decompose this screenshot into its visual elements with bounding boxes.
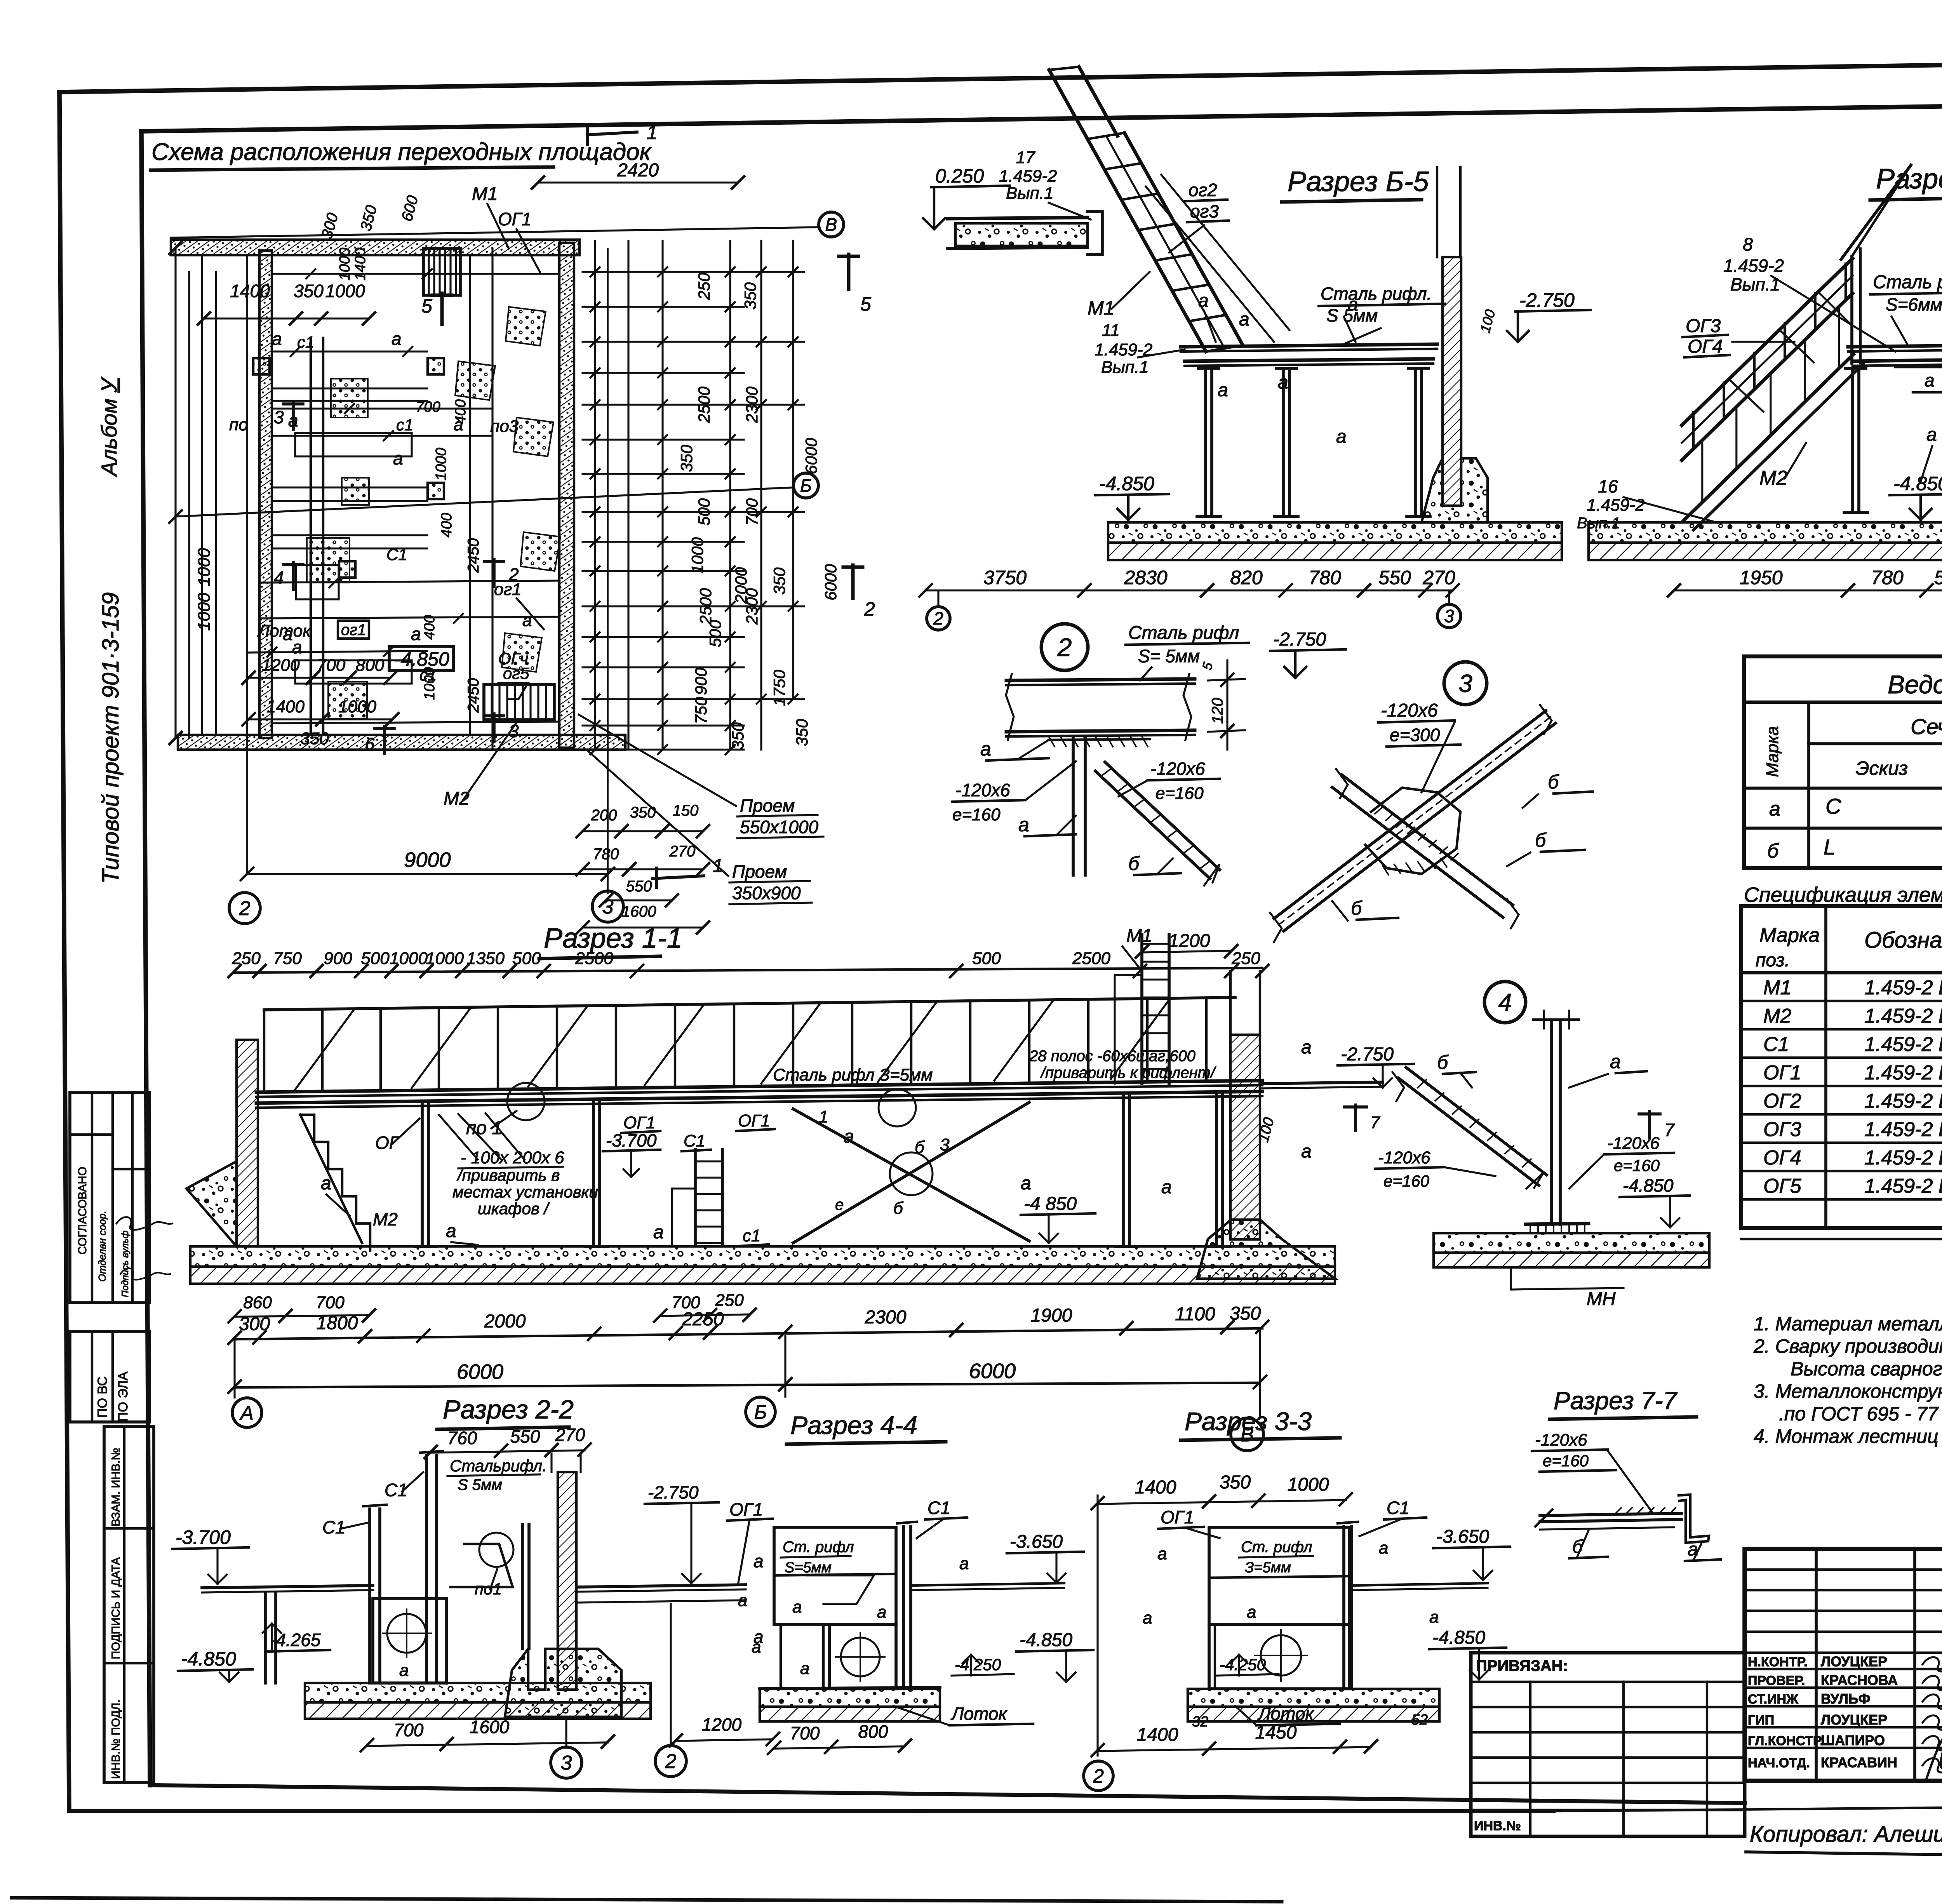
B5 platform floor [1181, 344, 1437, 347]
svg-text:ОГ4: ОГ4 [1688, 336, 1723, 357]
B5 dims [926, 589, 1453, 591]
svg-text:Ст. рифл: Ст. рифл [783, 1539, 854, 1556]
svg-text:а: а [1198, 291, 1209, 311]
svg-text:Спецификация элементов к схеме: Спецификация элементов к схеме расположе… [1744, 883, 1942, 907]
svg-text:1.459-2 Вып.2: 1.459-2 Вып.2 [1864, 1175, 1942, 1197]
B5 ladder rungs [1088, 133, 1124, 139]
svg-text:М1: М1 [1763, 976, 1791, 999]
inner drawing frame bottom [150, 1785, 1745, 1803]
svg-text:ПО ВС: ПО ВС [95, 1377, 110, 1418]
svg-text:Марка: Марка [1759, 924, 1820, 947]
svg-text:Схема расположения переходных: Схема расположения переходных площадок [151, 139, 652, 165]
dim 120 [1208, 679, 1245, 680]
svg-text:-120х6: -120х6 [955, 780, 1010, 800]
bottom scan shadow line [12, 1898, 1282, 1902]
svg-text:ОГ3: ОГ3 [1763, 1118, 1801, 1141]
svg-text:-4.850: -4.850 [181, 1648, 236, 1670]
svg-text:ШАПИРО: ШАПИРО [1821, 1732, 1885, 1748]
svg-text:а: а [1239, 309, 1249, 330]
svg-text:а: а [522, 611, 532, 630]
svg-text:4: 4 [1498, 989, 1512, 1016]
svg-text:3: 3 [1458, 669, 1472, 697]
svg-text:а: а [753, 1551, 764, 1571]
4-4 C1 [902, 1526, 905, 1689]
section mark 1 top [586, 124, 589, 144]
plan right wall [559, 243, 574, 748]
svg-text:поз.: поз. [1756, 950, 1790, 971]
X bar NW-SE [1342, 775, 1513, 905]
svg-text:Высота сварного шва hш= 6 мм: Высота сварного шва hш= 6 мм. [1791, 1358, 1942, 1380]
svg-text:ог2: ог2 [1189, 180, 1217, 200]
4-4 ground [760, 1689, 940, 1707]
svg-text:1350: 1350 [466, 949, 505, 968]
svg-text:-120х6: -120х6 [1381, 700, 1438, 721]
6-6 dims [1674, 589, 1942, 591]
axis circle 2 bottom [655, 1746, 686, 1777]
svg-text:800: 800 [858, 1721, 888, 1742]
svg-text:2830: 2830 [1124, 567, 1167, 588]
svg-text:а: а [1336, 426, 1347, 447]
svg-text:-4.850: -4.850 [1623, 1175, 1674, 1196]
svg-text:-4 850: -4 850 [1024, 1194, 1077, 1214]
svg-text:а: а [738, 1591, 747, 1610]
svg-text:б: б [1128, 853, 1140, 874]
svg-text:-3.650: -3.650 [1010, 1532, 1063, 1552]
svg-text:Стальрифл.: Стальрифл. [450, 1457, 547, 1475]
svg-text:-2.750: -2.750 [1341, 1044, 1394, 1065]
svg-text:е=160: е=160 [1543, 1451, 1589, 1470]
detail circle 2 [1041, 624, 1088, 670]
svg-text:шкафов /: шкафов / [478, 1199, 550, 1218]
svg-text:2450: 2450 [465, 538, 482, 573]
6-6 ground [1589, 522, 1942, 543]
svg-text:а: а [844, 1126, 854, 1147]
svg-text:е=160: е=160 [1383, 1172, 1430, 1190]
svg-text:М2: М2 [373, 1209, 398, 1229]
svg-text:а: а [1348, 294, 1358, 315]
section flag 1 bottom [653, 876, 704, 879]
svg-text:550: 550 [510, 1426, 540, 1446]
svg-text:а: а [393, 448, 403, 468]
svg-text:270: 270 [669, 843, 696, 860]
svg-text:по: по [229, 415, 248, 434]
svg-text:ПО ЭЛА: ПО ЭЛА [116, 1371, 131, 1422]
svg-text:МН: МН [1587, 1289, 1616, 1309]
section flag 5 right [847, 254, 851, 289]
svg-text:350: 350 [1220, 1472, 1251, 1493]
svg-text:700: 700 [316, 1293, 345, 1312]
svg-text:а: а [411, 624, 421, 644]
svg-text:ПРОВЕР.: ПРОВЕР. [1748, 1673, 1805, 1688]
6-6 stair fence band [1682, 258, 1853, 425]
svg-text:750: 750 [273, 949, 302, 968]
svg-text:СТ.ИНЖ: СТ.ИНЖ [1748, 1692, 1798, 1707]
svg-text:М1: М1 [472, 184, 498, 204]
inner drawing frame top [141, 99, 1942, 131]
svg-text:700: 700 [416, 399, 440, 415]
svg-text:500: 500 [512, 949, 541, 968]
left stamp box: approvals [70, 1093, 150, 1303]
svg-text:а: а [1161, 1177, 1172, 1197]
svg-text:С1: С1 [1763, 1033, 1789, 1056]
6-6 top post [1850, 256, 1853, 363]
axis circles A B V [233, 1339, 235, 1398]
svg-text:местах установки: местах установки [452, 1183, 598, 1201]
svg-text:а: а [1021, 1173, 1031, 1194]
svg-text:Н.КОНТР.: Н.КОНТР. [1748, 1655, 1808, 1669]
sheet outer frame top edge [59, 56, 1942, 92]
left stamp box: inventory column [104, 1427, 154, 1782]
svg-text:1400: 1400 [352, 248, 369, 281]
svg-text:а: а [877, 1603, 886, 1622]
spec table outer [1741, 906, 1942, 1228]
svg-text:2000: 2000 [484, 1311, 526, 1332]
svg-text:1.459-2 Вып.2: 1.459-2 Вып.2 [1864, 1090, 1942, 1112]
1-1 posts [421, 1103, 424, 1246]
2-2 pit [373, 1598, 447, 1683]
3-3 pit [1209, 1624, 1349, 1689]
svg-text:300: 300 [318, 211, 342, 241]
svg-text:1.459-2 Вып.2: 1.459-2 Вып.2 [1864, 1147, 1942, 1169]
plan bottom wall [178, 735, 625, 750]
weld ticks on gusset [1375, 808, 1382, 814]
B5 ladder M1 stringers [1088, 139, 1206, 352]
svg-text:Сталь рифл З=5мм: Сталь рифл З=5мм [773, 1065, 933, 1084]
svg-text:5: 5 [1200, 661, 1216, 672]
svg-text:А: А [239, 1402, 253, 1424]
svg-text:500: 500 [361, 949, 390, 968]
svg-text:а: а [321, 1173, 331, 1194]
svg-text:350: 350 [300, 729, 329, 748]
svg-text:.по ГОСТ 695 - 77: .по ГОСТ 695 - 77 [1779, 1403, 1939, 1425]
svg-text:2500: 2500 [696, 588, 715, 625]
svg-text:/приварить к рифлент/: /приварить к рифлент/ [1040, 1064, 1216, 1081]
svg-text:1: 1 [647, 122, 658, 143]
interior long guide lines [201, 256, 203, 734]
dim 9000 [247, 873, 608, 875]
svg-text:е=160: е=160 [1155, 784, 1204, 803]
svg-text:1400: 1400 [1135, 1477, 1176, 1498]
svg-text:1800: 1800 [317, 1313, 358, 1333]
svg-text:а: а [1429, 1608, 1439, 1627]
svg-text:-120х6: -120х6 [1535, 1431, 1587, 1450]
svg-text:е: е [835, 1196, 844, 1213]
svg-text:а: а [1688, 1539, 1698, 1560]
svg-text:Копировал: Алешикова: Копировал: Алешикова [1750, 1822, 1942, 1847]
svg-text:1000: 1000 [1288, 1474, 1329, 1495]
plan top wall [171, 240, 579, 255]
svg-text:250: 250 [715, 1291, 744, 1310]
svg-text:М2: М2 [444, 788, 470, 809]
svg-text:б: б [1437, 1051, 1449, 1073]
svg-text:L: L [1824, 835, 1836, 859]
svg-text:4: 4 [274, 567, 284, 588]
7-7 plate [1540, 1513, 1682, 1516]
svg-text:700: 700 [317, 656, 346, 675]
svg-text:ЛОУЦКЕР: ЛОУЦКЕР [1821, 1653, 1887, 1669]
svg-text:Лоток: Лоток [1257, 1704, 1315, 1724]
svg-text:Ст. рифл: Ст. рифл [1241, 1539, 1312, 1556]
svg-text:М2: М2 [1763, 1005, 1791, 1027]
svg-text:1000: 1000 [337, 248, 353, 281]
section flag 5 mid [440, 293, 444, 324]
svg-text:2300: 2300 [743, 386, 761, 423]
detail circle 3 [1444, 662, 1487, 705]
svg-text:Б: Б [754, 1401, 767, 1423]
svg-text:-2.750: -2.750 [1273, 629, 1326, 650]
svg-text:ОГ4: ОГ4 [1763, 1147, 1801, 1169]
svg-text:750: 750 [692, 696, 710, 724]
extra cluster segments [272, 350, 427, 352]
2-2 C1 ladders [368, 1509, 371, 1683]
1-1 ladder C1 [694, 1150, 697, 1245]
svg-text:СОГЛАСОВАНО: СОГЛАСОВАНО [76, 1167, 89, 1255]
svg-text:Вып.1: Вып.1 [1577, 515, 1620, 532]
svg-text:С1: С1 [684, 1131, 705, 1150]
2-2 right posts and wall [521, 1525, 524, 1649]
svg-text:1000: 1000 [195, 548, 214, 586]
svg-text:1000: 1000 [195, 593, 214, 631]
svg-text:2: 2 [239, 897, 251, 920]
svg-text:3: 3 [940, 1135, 950, 1154]
svg-text:350: 350 [294, 281, 324, 301]
plan dim 2420 [538, 181, 738, 183]
svg-text:а: а [1925, 370, 1935, 390]
svg-text:800: 800 [356, 656, 385, 675]
svg-text:900: 900 [692, 667, 710, 695]
svg-text:Проем: Проем [740, 795, 795, 816]
svg-text:1200: 1200 [1169, 931, 1210, 951]
svg-text:270: 270 [1422, 567, 1455, 588]
svg-text:S= 5мм: S= 5мм [1138, 646, 1200, 666]
svg-text:ОГ1: ОГ1 [1161, 1507, 1194, 1527]
1-1 floor [256, 1081, 1262, 1092]
svg-text:-3.700: -3.700 [176, 1526, 231, 1548]
break marks det3 [1540, 705, 1552, 734]
svg-text:2250: 2250 [682, 1309, 724, 1330]
svg-text:S 5мм: S 5мм [458, 1476, 502, 1493]
svg-text:Разрез 7-7: Разрез 7-7 [1554, 1387, 1678, 1415]
svg-text:3: 3 [1444, 606, 1454, 626]
axis circle 2 [229, 893, 260, 924]
svg-text:270: 270 [555, 1425, 585, 1445]
svg-text:8: 8 [1743, 234, 1753, 254]
svg-text:Разрез 4-4: Разрез 4-4 [790, 1411, 917, 1439]
3-3 ground [1188, 1689, 1439, 1707]
B5 rail lines [1146, 186, 1274, 342]
svg-text:З=5мм: З=5мм [1245, 1559, 1291, 1576]
svg-text:780: 780 [1871, 567, 1904, 588]
2-2 ground [305, 1683, 651, 1702]
svg-text:1750: 1750 [770, 670, 788, 706]
svg-text:-3.650: -3.650 [1436, 1526, 1489, 1547]
axis circle 3 [592, 891, 623, 922]
svg-text:Отделвн соор.: Отделвн соор. [96, 1211, 108, 1282]
svg-text:а: а [959, 1554, 969, 1573]
svg-text:Вып.1: Вып.1 [1006, 184, 1054, 203]
svg-text:350: 350 [770, 567, 788, 595]
svg-text:0.250: 0.250 [935, 165, 984, 187]
svg-text:ог3: ог3 [1190, 201, 1219, 221]
axis line B [171, 227, 818, 238]
svg-text:1400: 1400 [1137, 1725, 1178, 1745]
svg-text:Сталь рифл.: Сталь рифл. [1321, 284, 1432, 304]
det4 post [1550, 1023, 1553, 1224]
svg-text:2500: 2500 [575, 949, 613, 968]
det4 base [1526, 1224, 1589, 1224]
svg-text:е=300: е=300 [1390, 725, 1440, 745]
svg-text:700: 700 [743, 498, 761, 526]
weld hatch top [1049, 736, 1055, 747]
svg-text:2300: 2300 [865, 1307, 907, 1328]
svg-text:550х1000: 550х1000 [740, 817, 818, 837]
svg-text:по1: по1 [475, 1580, 502, 1598]
svg-text:с1: с1 [396, 416, 413, 434]
det2 beam [1006, 679, 1195, 680]
svg-text:1.459-2 Вып.2: 1.459-2 Вып.2 [1864, 1062, 1942, 1084]
svg-text:6000: 6000 [821, 564, 840, 600]
privyazan table outer [1471, 1653, 1745, 1836]
svg-text:Проем: Проем [732, 861, 787, 882]
svg-text:Лоток: Лоток [950, 1704, 1008, 1724]
svg-text:6000: 6000 [457, 1360, 503, 1384]
svg-text:1000: 1000 [433, 448, 449, 481]
svg-text:2. Сварку производить электро: 2. Сварку производить электродами Э42 по… [1753, 1335, 1942, 1357]
svg-text:С1: С1 [322, 1517, 345, 1537]
svg-text:1400: 1400 [230, 281, 270, 301]
1-1 right foundation [1197, 1220, 1335, 1279]
B5 top-left slab [948, 218, 1088, 219]
4-4 floor stubs right [911, 1583, 1064, 1586]
vedomost title row line [1744, 701, 1942, 704]
svg-text:а: а [1926, 425, 1937, 445]
svg-text:6000: 6000 [802, 438, 820, 474]
X bar NE-SW [1274, 711, 1546, 919]
4-4 box [774, 1527, 896, 1624]
flags 3,4,2,3 [292, 402, 295, 429]
svg-text:1.459-2 Вып.2: 1.459-2 Вып.2 [1864, 1118, 1942, 1141]
svg-text:б: б [1548, 771, 1559, 793]
svg-text:2450: 2450 [465, 678, 482, 713]
3-3 box [1209, 1527, 1349, 1624]
svg-text:1000: 1000 [338, 697, 376, 716]
svg-text:5: 5 [421, 295, 432, 317]
svg-text:2000: 2000 [732, 567, 750, 604]
svg-text:Сталь рифл: Сталь рифл [1128, 623, 1239, 643]
svg-text:6000: 6000 [969, 1359, 1016, 1383]
svg-text:2: 2 [864, 598, 875, 620]
svg-text:2500: 2500 [1072, 949, 1110, 968]
1-1 right wall [1230, 1035, 1260, 1239]
svg-text:Лоток: Лоток [257, 621, 311, 640]
svg-text:2: 2 [1093, 1765, 1104, 1787]
svg-text:Разрез Б-5: Разрез Б-5 [1288, 166, 1429, 197]
gusset plate [1365, 788, 1460, 874]
svg-text:1600: 1600 [470, 1717, 510, 1737]
svg-text:150: 150 [673, 802, 699, 819]
svg-text:а: а [292, 637, 302, 657]
svg-text:а: а [1218, 380, 1228, 400]
2-2 foundation [505, 1649, 621, 1717]
1-1 right floor stub [1260, 1082, 1383, 1084]
right dim grid columns [594, 241, 596, 750]
svg-text:а: а [752, 1638, 761, 1657]
svg-text:Марка: Марка [1763, 726, 1782, 777]
plan ladder M1 [423, 249, 460, 295]
svg-text:б: б [915, 1138, 925, 1157]
plan ladder M2 [484, 684, 554, 720]
svg-text:1.459-2 Вып.1: 1.459-2 Вып.1 [1864, 1005, 1942, 1027]
svg-text:350: 350 [1230, 1303, 1261, 1324]
svg-text:Б: Б [800, 475, 812, 496]
svg-text:350: 350 [357, 204, 381, 233]
stairs steps [300, 1115, 370, 1251]
B5 posts [1204, 368, 1207, 517]
svg-text:Разрез 2-2: Разрез 2-2 [443, 1395, 574, 1424]
svg-text:1000: 1000 [421, 667, 438, 700]
B5 right wall [1443, 257, 1461, 506]
plan top-left dims 1400 350 1000 [204, 317, 369, 319]
svg-text:ПРИВЯЗАН:: ПРИВЯЗАН: [1476, 1657, 1568, 1674]
1-1 ground [190, 1246, 1335, 1267]
svg-text:-2.750: -2.750 [1519, 289, 1575, 311]
svg-text:ПОДПИСЬ И ДАТА: ПОДПИСЬ И ДАТА [110, 1557, 122, 1659]
svg-text:а: а [980, 738, 991, 760]
svg-text:1.459-2: 1.459-2 [1587, 496, 1644, 515]
svg-text:700: 700 [394, 1720, 424, 1740]
svg-text:16: 16 [1598, 476, 1618, 496]
plan left dim line [174, 248, 176, 738]
detail circle 4 [1484, 982, 1526, 1023]
svg-text:900: 900 [324, 949, 352, 968]
svg-text:1100: 1100 [1175, 1304, 1215, 1324]
svg-text:а: а [792, 1598, 802, 1617]
svg-text:550: 550 [1934, 567, 1942, 588]
dims 1200 700 800 [249, 677, 390, 679]
svg-text:В: В [825, 214, 837, 235]
svg-text:3: 3 [274, 407, 284, 427]
svg-text:Альбом У: Альбом У [97, 376, 121, 477]
B5 wall foundation [1422, 458, 1488, 522]
svg-text:250: 250 [695, 272, 713, 300]
inner drawing frame left [141, 131, 150, 1785]
svg-text:1000: 1000 [688, 537, 706, 574]
svg-text:9000: 9000 [404, 848, 451, 872]
vedomost table outer [1744, 656, 1942, 868]
svg-text:Типовой проект 901·3-159: Типовой проект 901·3-159 [97, 592, 124, 884]
svg-text:М2: М2 [1759, 467, 1787, 489]
svg-text:С1: С1 [1387, 1498, 1410, 1518]
svg-text:500: 500 [972, 949, 1001, 968]
B5 ground [1108, 522, 1562, 543]
svg-text:2: 2 [665, 1750, 677, 1773]
axis circle 3 under B5 [1437, 604, 1461, 628]
7-7 angle [1679, 1495, 1709, 1543]
B5 ladder top break [1049, 70, 1088, 139]
svg-text:С: С [1825, 794, 1841, 818]
svg-text:М1: М1 [1088, 297, 1114, 319]
svg-text:500: 500 [695, 498, 713, 526]
2-2 floor beam [202, 1586, 373, 1588]
svg-text:ОГ1: ОГ1 [498, 209, 531, 229]
svg-text:1200: 1200 [702, 1714, 742, 1735]
axis circle B [819, 212, 844, 237]
svg-text:б: б [893, 1199, 904, 1218]
svg-text:С1: С1 [927, 1498, 950, 1518]
svg-text:1.459-2 Вып.1: 1.459-2 Вып.1 [1864, 1033, 1942, 1056]
svg-text:ОГ1: ОГ1 [738, 1111, 770, 1130]
svg-text:ОГ5: ОГ5 [1763, 1175, 1802, 1197]
